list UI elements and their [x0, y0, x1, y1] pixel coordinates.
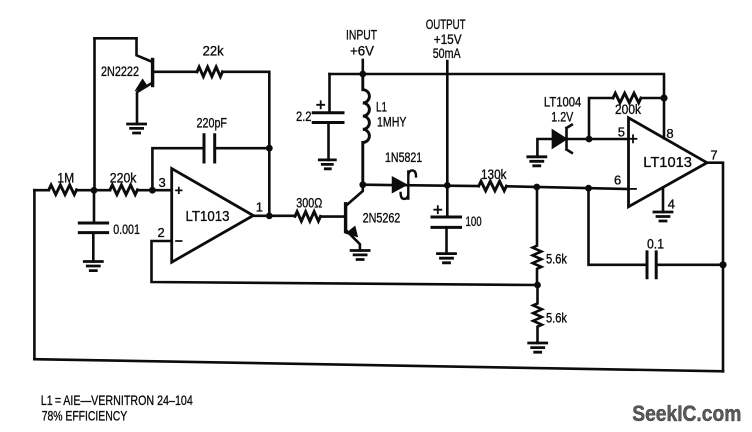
capacitor C1 0.001 bottom lead	[92, 233, 95, 262]
ground under 100	[438, 254, 456, 263]
wire pin2 lead and feedback down	[152, 241, 538, 285]
transistor Q1 2N2222 base bar	[151, 60, 154, 86]
svg-text:22k: 22k	[203, 43, 224, 58]
node dot 5.6k top junction	[533, 184, 540, 191]
ground under 0.001	[84, 262, 102, 271]
resistor R1 22k	[197, 67, 222, 77]
wire 0.1 right	[656, 263, 723, 266]
wire 130k to pin6	[507, 186, 629, 189]
node dot 220pF-right junction	[266, 145, 273, 152]
svg-text:OUTPUT: OUTPUT	[426, 17, 466, 32]
resistor R7 5.6k upper	[533, 187, 542, 285]
wire 300ohm to Q2 base	[321, 215, 346, 218]
ground under Q2 emitter	[351, 251, 369, 260]
wire 220k to pin3 node	[138, 189, 153, 192]
node dot 0.1 branch junction	[585, 185, 592, 192]
wire 200k right to rail corner	[641, 97, 664, 100]
wire 22k right to down corner	[223, 72, 270, 216]
capacitor C4 100 bottom lead	[445, 227, 448, 253]
diode D1 1N5821 triangle	[393, 177, 407, 192]
op-amp U1 LT1013 triangle	[172, 169, 254, 263]
diode D2 LT1004 bar	[567, 125, 572, 153]
diode D1 schottky bar	[401, 170, 416, 199]
svg-text:5.6k: 5.6k	[546, 311, 567, 326]
wire 220pF branch vertical from pin3 node	[152, 148, 204, 190]
node dot 0.1-right vertical	[719, 261, 726, 268]
node dot L1 bottom	[359, 181, 366, 188]
transistor Q1 2N2222 emitter lead	[137, 83, 153, 125]
wire 200k left vertical	[589, 98, 613, 139]
transistor Q2 2N5262 base bar	[344, 204, 347, 232]
ground under pin4	[654, 212, 672, 221]
wire 1M row left	[34, 189, 48, 192]
node dot pin5 junction	[586, 136, 593, 143]
ground under LT1004	[528, 157, 546, 166]
svg-text:2N2222: 2N2222	[101, 64, 139, 79]
svg-text:2N5262: 2N5262	[363, 211, 401, 226]
wire bottom feedback	[34, 359, 723, 371]
capacitor C3 2.2 plates	[313, 113, 343, 123]
op-amp U2 LT1013 triangle	[629, 118, 708, 207]
svg-text:100: 100	[466, 214, 482, 229]
wire pin3 node to op-amp U1	[152, 189, 171, 192]
svg-text:L1: L1	[376, 100, 387, 115]
transistor Q1 2N2222 collector lead	[137, 38, 153, 62]
wire LT1004 to pin5	[567, 138, 629, 141]
wire 1M to node	[77, 189, 110, 192]
svg-text:3: 3	[159, 175, 166, 190]
node dot U1 output junction	[266, 213, 273, 220]
svg-text:6: 6	[614, 172, 621, 187]
svg-text:5: 5	[618, 124, 625, 139]
svg-text:SeekIC.com: SeekIC.com	[632, 401, 741, 426]
ground under 5.6k lower	[529, 343, 547, 352]
svg-text:LT1013: LT1013	[643, 154, 692, 171]
capacitor C3 2.2 top lead	[328, 74, 331, 113]
capacitor C3 2.2 bottom lead	[327, 123, 330, 160]
svg-text:220k: 220k	[110, 171, 137, 186]
svg-text:2: 2	[158, 225, 165, 240]
capacitor C1 0.001 plates	[79, 223, 107, 233]
wire top rail	[330, 74, 665, 138]
resistor R5 130k	[479, 181, 507, 191]
svg-text:2.2: 2.2	[296, 109, 312, 124]
capacitor C5 0.1 plates	[647, 252, 656, 278]
capacitor C1 0.001 top lead	[93, 190, 96, 223]
svg-text:50mA: 50mA	[433, 46, 461, 61]
svg-text:130k: 130k	[481, 167, 507, 182]
svg-text:0.1: 0.1	[647, 237, 664, 252]
resistor R4 300ohm	[295, 212, 321, 222]
wire 0.1 branch vertical	[589, 188, 648, 265]
svg-text:LT1013: LT1013	[186, 208, 230, 225]
op-amp U1 minus input mark	[176, 240, 182, 242]
op-amp U1 plus input mark	[176, 188, 182, 194]
transistor Q2 emitter arrow	[347, 227, 357, 236]
wire pin4 lead	[662, 188, 665, 212]
svg-text:L1 = AIE—VERNITRON 24–104: L1 = AIE—VERNITRON 24–104	[41, 392, 193, 408]
op-amp U2 plus input mark	[630, 135, 637, 142]
svg-text:5.6k: 5.6k	[546, 252, 567, 267]
resistor R3 220k	[110, 185, 138, 195]
svg-text:INPUT: INPUT	[346, 28, 377, 43]
svg-text:1N5821: 1N5821	[385, 150, 422, 165]
wire mid rail L1 to 130k	[363, 185, 479, 186]
capacitor C3 2.2 plus mark	[317, 101, 324, 108]
wire 220pF right to vertical	[215, 147, 270, 150]
svg-text:1.2V: 1.2V	[551, 110, 573, 125]
svg-text:0.001: 0.001	[113, 222, 140, 237]
svg-text:7: 7	[710, 147, 717, 162]
diode D2 LT1004 triangle	[552, 130, 566, 148]
svg-text:200k: 200k	[615, 102, 641, 117]
node A dot 1M-220k-0.001 junction	[91, 187, 98, 194]
node dot OUTPUT-mid rail	[444, 182, 451, 189]
wire U1 output	[253, 215, 295, 218]
wire left vertical from loop to 1M node	[93, 38, 96, 190]
resistor R8 5.6k lower	[533, 285, 542, 343]
wire INPUT lead	[361, 60, 364, 74]
ground under 2.2	[319, 160, 335, 169]
svg-text:+6V: +6V	[350, 43, 374, 58]
node dot between 5.6k resistors	[534, 282, 541, 289]
svg-text:220pF: 220pF	[197, 116, 228, 131]
wire left outer vertical	[33, 190, 36, 359]
capacitor C4 100 plates	[432, 217, 461, 227]
ground under Q1 emitter	[128, 124, 146, 133]
capacitor C2 220pF plates	[204, 135, 215, 162]
svg-text:4: 4	[668, 197, 675, 212]
diode D2 LT1004 left lead and ground	[537, 139, 552, 157]
node pin3 dot	[149, 187, 156, 194]
svg-text:1MHY: 1MHY	[377, 115, 406, 130]
svg-text:78% EFFICIENCY: 78% EFFICIENCY	[42, 408, 128, 424]
node dot 200k-rail junction	[660, 94, 667, 101]
svg-text:LT1004: LT1004	[544, 95, 582, 110]
transistor Q1 2N2222 emitter arrow	[136, 80, 147, 90]
resistor R6 200k	[613, 93, 641, 103]
wire pin7 output and right vertical	[707, 163, 723, 372]
svg-text:+15V: +15V	[434, 32, 462, 47]
transistor Q2 collector lead	[346, 185, 363, 206]
resistor R2 1M	[49, 185, 77, 195]
inductor L1	[363, 74, 370, 185]
wire top-left loop horizontal	[95, 37, 137, 40]
svg-text:1: 1	[256, 200, 263, 215]
wire OUTPUT vertical	[446, 61, 449, 217]
svg-text:1M: 1M	[57, 171, 74, 186]
op-amp U2 minus input mark	[629, 188, 636, 190]
transistor Q2 emitter lead	[346, 230, 360, 251]
svg-text:8: 8	[666, 126, 673, 141]
wire Q1 base to 22k	[154, 71, 197, 74]
node dot L1 top	[359, 71, 366, 78]
capacitor C4 100 plus mark	[434, 206, 441, 213]
svg-text:300Ω: 300Ω	[296, 196, 322, 211]
